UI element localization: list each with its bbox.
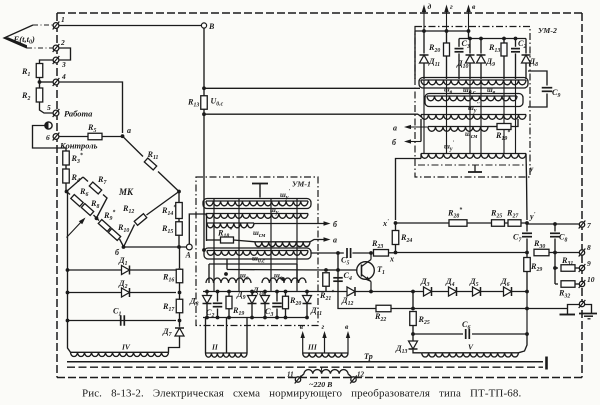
wire R15 to rail [178, 235, 180, 247]
wire thermocouple+ to terminal 1 [33, 24, 53, 26]
svg-text:Контроль: Контроль [59, 141, 98, 151]
resistor R24 [395, 223, 397, 230]
resistor R20 in УМ-1 [285, 292, 287, 297]
capacitor C2 in УМ-2 [515, 39, 517, 47]
diode Д10 in УМ-2 [468, 31, 470, 39]
svg-text:В: В [208, 22, 215, 31]
resistor R30 [534, 249, 549, 256]
terminal 5 [53, 110, 59, 116]
svg-text:4: 4 [61, 72, 66, 81]
core legs УМ-2 [423, 80, 425, 154]
wire left vertex to bridge top corner [67, 177, 84, 192]
diode Д10 [264, 292, 266, 296]
svg-text:IV: IV [121, 343, 131, 352]
arrow a to УМ-1 [407, 126, 428, 128]
resistor R9* [97, 218, 100, 220]
capacitor C2 [217, 292, 219, 302]
wire terminal 1 to node В [59, 25, 201, 27]
wire thermocouple- to terminal 2 [27, 47, 53, 49]
wire R16 to R17 [179, 283, 181, 299]
node rail1-column [178, 268, 182, 272]
wire В down to R13 [203, 28, 205, 96]
diode Д3 [424, 287, 432, 296]
wв link wire [209, 263, 297, 265]
wire R2 to terminal 5 [40, 102, 54, 113]
svg-text:6: 6 [46, 133, 50, 142]
resistor R21* [323, 273, 330, 287]
resistor R17 [176, 299, 183, 313]
wire R5 to node a [102, 136, 123, 138]
diode Д8 in УМ-2 [525, 39, 527, 54]
svg-text:г: г [450, 2, 453, 11]
wire terminal 3 to R1 [40, 60, 54, 63]
terminal 7 [579, 222, 584, 227]
wire R30 to terminal 8 [549, 252, 579, 254]
diode Д4 [449, 287, 457, 296]
label УМ-1 [291, 179, 317, 188]
winding row C turns [421, 114, 526, 116]
svg-text:II: II [211, 343, 219, 352]
terminal 10 [579, 281, 584, 286]
thermocouple E(t,t0) [4, 25, 33, 48]
diode Д7 [175, 328, 184, 336]
svg-text:а: а [127, 126, 131, 135]
resistor R2 [36, 88, 43, 102]
svg-text:а: а [333, 236, 337, 245]
node bridge right vertex [177, 190, 181, 194]
winding wв left turns [206, 278, 251, 283]
svg-text:5: 5 [47, 103, 51, 112]
svg-text:3: 3 [61, 60, 66, 69]
terminal 1 [53, 23, 59, 29]
node В [201, 23, 206, 28]
core end bar [545, 357, 548, 370]
resistor R25 lower [412, 292, 414, 309]
wire В rail into windings [203, 177, 205, 250]
lower bus УМ-1 [203, 317, 308, 319]
winding row B turns [427, 95, 517, 97]
resistor R19* [488, 126, 497, 128]
winding wо.с former [204, 248, 311, 259]
svg-text:УМ-2: УМ-2 [538, 26, 557, 35]
ground connection bracket [568, 305, 580, 315]
resistor R25 upper [492, 220, 505, 227]
resistor R8 (slidewire) [81, 204, 93, 216]
svg-text:III: III [307, 343, 318, 352]
wire rail 1 [68, 269, 177, 271]
svg-text:Работа: Работа [64, 109, 93, 119]
resistor R7 branch [83, 177, 88, 182]
diode Д11 [306, 292, 308, 296]
diode Д12 [347, 287, 355, 296]
block УМ-2 boundary [415, 27, 530, 178]
capacitor C5 [346, 248, 348, 258]
svg-text:Тр: Тр [364, 352, 373, 361]
resistor R16 [176, 269, 183, 283]
resistor R5 [88, 133, 102, 140]
output arrow б from УМ-1 [254, 223, 328, 225]
winding б row turns [207, 222, 254, 224]
slidewire wiper arrow [67, 221, 83, 238]
winding I primary [301, 374, 305, 377]
svg-text:а: а [393, 124, 397, 133]
wire terminal 6 to R5 [59, 136, 88, 138]
wire A rail to R18* [206, 214, 208, 241]
terminal 11 [295, 377, 300, 382]
device boundary frame (dash-dot) [57, 12, 582, 14]
wire wо.с tap to base line [226, 259, 228, 270]
capacitor C9 [528, 71, 547, 86]
diode Д13 [409, 341, 418, 349]
winding wу' former [203, 199, 311, 209]
diode Д11 in УМ-2 [423, 31, 425, 54]
wire y' to terminal 7 [527, 223, 579, 225]
terminal 8 [579, 250, 584, 255]
winding wу'' turns [206, 213, 308, 215]
svg-text:д: д [428, 2, 432, 11]
svg-text:1: 1 [61, 15, 65, 24]
svg-text:9: 9 [587, 259, 591, 268]
diode Д6 [504, 287, 512, 296]
ground terminal [579, 301, 584, 306]
diode Д1 [122, 266, 130, 275]
node б bridge bottom vertex [122, 245, 126, 249]
capacitor C7 [526, 224, 528, 232]
core legs УМ-1 [213, 199, 215, 292]
wire left column down from bridge [68, 192, 71, 353]
wire rail 3 [68, 320, 177, 322]
svg-text:7: 7 [587, 221, 591, 230]
winding wсм turns [255, 241, 310, 243]
diode bus upper УМ-1 [203, 291, 338, 293]
transformer core dashed line [67, 366, 543, 368]
diode Д5 [473, 287, 481, 296]
resistor R22 [338, 292, 376, 309]
output arrows д г в [423, 8, 425, 31]
wire row E left exit [420, 154, 422, 159]
resistor R32 [555, 283, 558, 285]
resistor R12 on bridge edge [124, 225, 135, 248]
winding row D wсм turns [428, 126, 488, 128]
ground symbol [585, 305, 592, 314]
resistor R19 [228, 292, 230, 297]
wire base [338, 269, 358, 271]
wire terminal 4 to node a [59, 82, 123, 133]
capacitor C1 [120, 315, 122, 326]
resistor R11 on supply edge [123, 136, 144, 156]
jumper link terminals 2-3 [59, 48, 71, 60]
capacitor C6 [413, 333, 463, 335]
resistor R4 [63, 169, 70, 183]
svg-text:11: 11 [287, 371, 294, 379]
wire rail 2 [68, 292, 177, 294]
svg-text:МК: МК [118, 187, 134, 197]
diode Д9 [251, 292, 253, 296]
arrow б to УМ-1 [420, 119, 422, 142]
wire R13 down [203, 109, 205, 177]
winding II [206, 352, 248, 354]
diode Д8 [206, 292, 208, 296]
winding wо.с turns [207, 250, 308, 252]
wire wо.с to C5 [311, 252, 344, 254]
resistor R3* [65, 148, 67, 151]
winding row A former [419, 78, 528, 89]
svg-text:у: у [529, 164, 534, 173]
wire control loop [33, 126, 67, 149]
svg-text:12: 12 [357, 371, 365, 379]
winding row B former [425, 94, 523, 107]
wire buses to winding II [205, 318, 207, 354]
winding wу' turns [206, 200, 308, 202]
svg-text:УМ-1: УМ-1 [292, 180, 311, 189]
control button symbol [45, 122, 52, 129]
winding wв right turns [262, 278, 306, 283]
wire R3* to R4 [65, 165, 67, 169]
node bridge left vertex [65, 190, 69, 194]
svg-text:E(t,t0): E(t,t0) [13, 34, 36, 46]
resistor R1 [36, 64, 43, 78]
capacitor C4 [333, 277, 343, 279]
resistor R18* [207, 239, 221, 241]
resistor R23 [371, 252, 372, 254]
wire R1 to R2 with tap to terminal 4 [39, 78, 41, 89]
wire R21* top to base node [326, 269, 338, 271]
diode Д2 [122, 288, 130, 297]
test point A [186, 244, 192, 250]
diode Д9 in УМ-2 [480, 39, 482, 54]
resistor R14* [178, 192, 180, 203]
wire R21* bottom to bus [325, 286, 327, 291]
wire second bus УМ-2 [459, 38, 526, 40]
wire winding V right end up [518, 334, 527, 353]
wire C5 to collector node [352, 252, 371, 254]
terminal 9 [579, 265, 584, 270]
capacitor C3 in УМ-2 [458, 39, 460, 47]
resistor R27 [508, 220, 521, 227]
resistor R28* [449, 220, 467, 227]
main emitter bus [338, 291, 527, 293]
wire Д7 to winding IV [169, 336, 180, 352]
feedback line lower [204, 113, 418, 115]
resistor R6 (slidewire) [67, 192, 71, 195]
terminal 12 [351, 377, 356, 382]
wire top bus УМ-2 [415, 30, 469, 32]
resistor R10 [108, 229, 120, 241]
svg-text:Рис. 8-13-2. Электрическая схе: Рис. 8-13-2. Электрическая схема нормиру… [82, 388, 521, 400]
resistor R13 in УМ-2 [503, 39, 505, 44]
wire row E right exit to y' [526, 154, 527, 221]
wire A up into UM-1 [189, 214, 206, 244]
wire R4 to bridge left vertex [65, 183, 67, 192]
transformer core solid line [67, 361, 543, 363]
core symbol УМ-1 [252, 183, 268, 185]
feedback line upper [202, 86, 206, 90]
winding III output arrows в г в [302, 334, 304, 353]
junction dots wв taps [224, 272, 228, 276]
transistor T1 [357, 262, 375, 280]
node a [121, 134, 125, 138]
terminal 6 [53, 134, 59, 140]
capacitor C3 [276, 292, 278, 302]
resistor R20 in УМ-2 [446, 31, 448, 43]
winding III [303, 352, 348, 354]
resistor R13 [201, 96, 208, 110]
resistor R15 [178, 219, 180, 222]
node x' [394, 221, 398, 225]
capacitor C8 [554, 224, 556, 232]
svg-text:10: 10 [587, 275, 595, 284]
terminal 4 [53, 79, 59, 85]
block УМ-1 boundary [196, 177, 318, 326]
core symbol УМ-2 [468, 171, 482, 173]
svg-text:г: г [322, 322, 325, 331]
wire C5 node column [337, 253, 339, 292]
wire right column down from A rail [179, 247, 181, 268]
node slidewire junction [95, 216, 99, 220]
wire bus to row A left [414, 31, 416, 79]
winding V [422, 352, 519, 354]
svg-text:А: А [185, 251, 192, 260]
wire x' feed from УМ-2 [396, 159, 422, 221]
svg-text:2: 2 [60, 38, 65, 47]
winding row A turns [421, 79, 526, 81]
wire x' to y' line [396, 222, 528, 224]
output arrow а from УМ-1 [310, 240, 328, 242]
svg-text:8: 8 [587, 243, 591, 252]
node y' [525, 221, 529, 225]
wire б vertex to test point A [124, 246, 187, 248]
svg-text:x: x [389, 255, 394, 264]
node x [394, 251, 398, 255]
inner bottom border УМ-2 [418, 164, 527, 166]
wire to R31 R32 [554, 253, 556, 285]
terminal 3 [53, 57, 59, 63]
wire x to right column [396, 252, 528, 254]
resistor R29 [526, 253, 528, 258]
resistor R31 [555, 267, 558, 269]
wire R17 down [179, 313, 181, 327]
winding row E wу' turns [421, 153, 526, 155]
winding IV [71, 351, 169, 353]
terminal 2 [53, 45, 59, 51]
